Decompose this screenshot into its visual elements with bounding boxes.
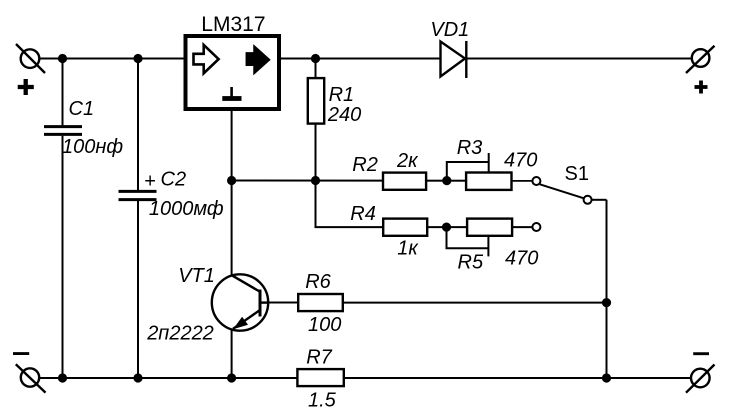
svg-text:1к: 1к xyxy=(397,237,419,259)
svg-text:R2: R2 xyxy=(352,154,378,176)
svg-text:R4: R4 xyxy=(350,203,376,225)
svg-text:R3: R3 xyxy=(457,137,483,159)
svg-text:S1: S1 xyxy=(565,163,589,185)
svg-text:100нф: 100нф xyxy=(62,136,123,158)
svg-text:240: 240 xyxy=(327,104,361,126)
svg-text:470: 470 xyxy=(505,248,538,270)
svg-text:R5: R5 xyxy=(458,251,484,273)
svg-text:LM317: LM317 xyxy=(201,13,265,36)
svg-text:1000мф: 1000мф xyxy=(149,198,224,220)
svg-text:C2: C2 xyxy=(161,169,187,191)
svg-text:C1: C1 xyxy=(69,98,95,120)
svg-text:VD1: VD1 xyxy=(430,19,469,41)
svg-text:2к: 2к xyxy=(396,150,419,172)
svg-text:1.5: 1.5 xyxy=(308,390,337,412)
svg-text:R6: R6 xyxy=(305,271,331,293)
svg-text:VT1: VT1 xyxy=(178,265,215,287)
svg-text:R7: R7 xyxy=(306,346,332,368)
svg-text:100: 100 xyxy=(308,314,341,336)
svg-text:R1: R1 xyxy=(329,84,355,106)
svg-text:470: 470 xyxy=(504,149,537,171)
svg-text:2п2222: 2п2222 xyxy=(146,322,214,344)
svg-text:+: + xyxy=(144,171,156,193)
